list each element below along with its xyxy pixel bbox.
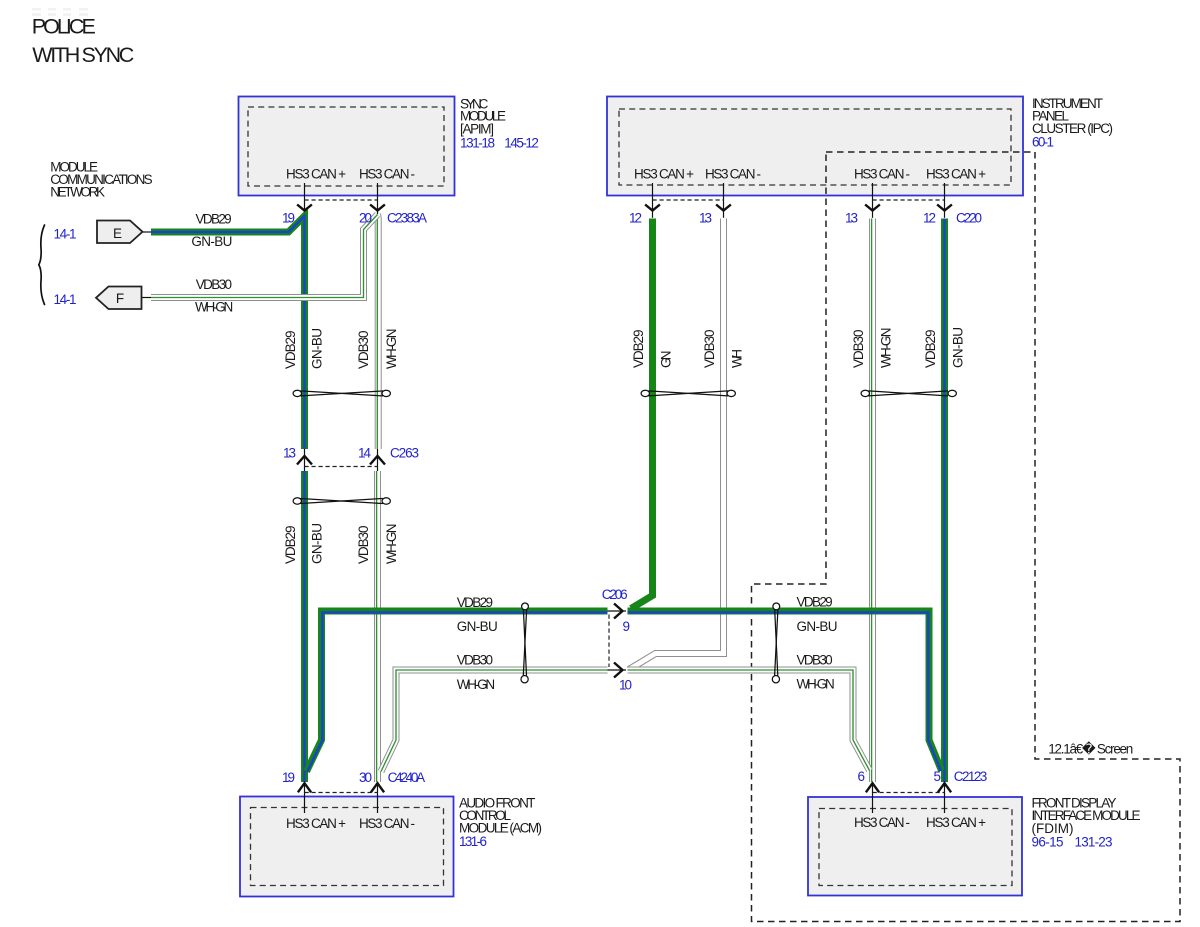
svg-text:20: 20 [359,210,372,225]
svg-text:WH-GN: WH-GN [384,329,399,370]
svg-text:6: 6 [857,769,865,784]
svg-text:12: 12 [629,210,642,225]
svg-text:131-23: 131-23 [1075,834,1113,849]
svg-text:C2123: C2123 [954,769,988,784]
svg-text:HS3 CAN -: HS3 CAN - [359,167,415,182]
svg-text:C4240A: C4240A [388,770,426,785]
svg-text:VDB29: VDB29 [797,595,833,610]
svg-text:GN-BU: GN-BU [457,619,498,634]
svg-text:30: 30 [359,770,372,785]
svg-text:HS3 CAN +: HS3 CAN + [926,167,986,182]
svg-text:145-12: 145-12 [504,135,539,150]
svg-text:14: 14 [358,445,371,460]
svg-text:GN: GN [659,351,674,369]
svg-text:VDB30: VDB30 [356,331,371,370]
svg-text:HS3 CAN -: HS3 CAN - [359,816,415,831]
svg-text:C220: C220 [956,210,982,225]
svg-text:C206: C206 [602,587,628,602]
svg-text:13: 13 [699,210,712,225]
svg-text:C2383A: C2383A [387,210,427,225]
svg-text:WITH SYNC: WITH SYNC [32,43,134,67]
svg-text:POLICE: POLICE [32,14,96,38]
svg-text:60-1: 60-1 [1032,135,1054,150]
svg-text:NETWORK: NETWORK [50,184,105,199]
svg-text:GN-BU: GN-BU [191,234,232,249]
svg-text:WH: WH [730,349,745,368]
svg-text:HS3 CAN -: HS3 CAN - [705,167,761,182]
svg-text:WH-GN: WH-GN [384,524,399,565]
svg-text:12.1â€� Screen: 12.1â€� Screen [1048,740,1133,756]
svg-text:E: E [113,226,122,241]
svg-text:VDB30: VDB30 [457,653,493,668]
svg-text:14-1: 14-1 [54,227,77,242]
svg-text:19: 19 [282,770,295,785]
svg-text:VDB30: VDB30 [196,277,232,292]
svg-text:VDB30: VDB30 [702,330,717,369]
svg-text:GN-BU: GN-BU [310,328,325,369]
svg-text:19: 19 [282,210,295,225]
svg-text:HS3 CAN +: HS3 CAN + [286,816,346,831]
svg-text:HS3 CAN -: HS3 CAN - [854,167,910,182]
svg-text:12: 12 [923,210,936,225]
svg-text:VDB30: VDB30 [797,653,833,668]
svg-text:VDB30: VDB30 [851,330,866,369]
svg-text:13: 13 [845,210,858,225]
svg-text:WH-GN: WH-GN [457,677,495,692]
svg-text:VDB29: VDB29 [283,331,298,370]
svg-text:14-1: 14-1 [54,292,77,307]
svg-text:VDB29: VDB29 [196,212,232,227]
svg-text:VDB29: VDB29 [457,595,493,610]
svg-text:HS3 CAN +: HS3 CAN + [286,167,346,182]
svg-text:HS3 CAN -: HS3 CAN - [854,815,910,830]
svg-text:HS3 CAN +: HS3 CAN + [926,815,986,830]
svg-text:VDB29: VDB29 [923,330,938,369]
svg-text:HS3 CAN +: HS3 CAN + [634,167,694,182]
svg-text:9: 9 [622,619,630,634]
svg-text:VDB30: VDB30 [356,526,371,565]
svg-text:GN-BU: GN-BU [951,327,966,368]
svg-text:VDB29: VDB29 [283,526,298,565]
svg-text:WH-GN: WH-GN [195,300,233,315]
svg-text:13: 13 [283,445,296,460]
svg-text:96-15: 96-15 [1032,834,1064,849]
svg-text:WH-GN: WH-GN [797,677,835,692]
svg-text:131-18: 131-18 [460,135,495,150]
svg-text:GN-BU: GN-BU [310,523,325,564]
svg-text:VDB29: VDB29 [631,330,646,369]
svg-text:WH-GN: WH-GN [879,328,894,369]
svg-text:GN-BU: GN-BU [797,619,838,634]
svg-text:F: F [116,291,124,306]
svg-text:10: 10 [619,678,632,693]
svg-text:C263: C263 [390,445,419,460]
svg-text:131-6: 131-6 [459,834,487,849]
svg-text:5: 5 [933,769,941,784]
